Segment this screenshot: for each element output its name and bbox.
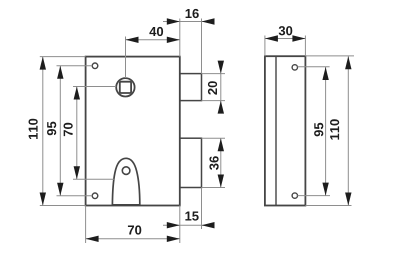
extension line top hole left: [57, 65, 93, 67]
top fixing hole: [92, 63, 98, 69]
dimension 110 right line: [347, 56, 349, 205]
extension line bolt bottom right: [202, 100, 226, 102]
dimension 110 left line: [42, 57, 44, 206]
extension line spindle up: [125, 37, 127, 79]
dimension 40 left arrow: [126, 37, 139, 43]
dimension 30 left arrow: [265, 35, 278, 41]
bolt head box: [180, 74, 202, 101]
extension line below plate right edge: [179, 206, 181, 244]
spindle square: [120, 82, 131, 93]
dimension 95 right line: [325, 67, 327, 196]
dimension 70 left top arrow: [74, 87, 80, 100]
dimension 70 bottom line: [86, 238, 180, 240]
side view body: [265, 56, 306, 205]
extension line side bottom hole right: [298, 195, 331, 197]
plate outline (face view): [86, 57, 180, 206]
dimension 95 right top arrow: [322, 67, 328, 80]
extension line side bottom right: [305, 205, 351, 207]
side view plate edge line: [275, 56, 277, 205]
dimension 15 line: [163, 224, 215, 226]
extension line spindle left: [73, 86, 116, 88]
dimension 95 left line: [59, 66, 61, 196]
dimension 20 text: [208, 81, 217, 94]
extension line side view right up: [304, 36, 306, 57]
side view top hole: [292, 65, 297, 70]
extension line below left edge: [85, 206, 87, 244]
dimension 95 right bottom arrow: [322, 183, 328, 196]
dimension 36 text: [209, 156, 218, 170]
extension line below case right edge: [201, 188, 203, 230]
dimension 20 top arrow: [218, 61, 224, 74]
extension line side top right: [305, 55, 354, 57]
dimension 15 right arrow: [202, 222, 215, 228]
dimension 36 bottom arrow: [218, 175, 224, 188]
dimension 95 left text: [47, 122, 56, 136]
extension line bolt top right: [202, 73, 226, 75]
dimension 110 left text: [29, 119, 38, 139]
dimension 70 left text: [64, 123, 73, 136]
escutcheon hole: [122, 167, 130, 175]
dimension 70 bottom right arrow: [167, 236, 180, 242]
dimension 95 left bottom arrow: [57, 183, 63, 196]
dimension 36 line: [220, 138, 222, 187]
dimension 20 bottom arrow: [218, 101, 224, 114]
extension line case lower bottom right: [202, 187, 226, 189]
dimension 110 right top arrow: [345, 56, 351, 69]
dimension 16 text: [186, 9, 199, 18]
dimension 40 text: [149, 27, 163, 36]
dimension 70 left bottom arrow: [74, 166, 80, 179]
dimension 70 left line: [76, 87, 78, 180]
extension line escutcheon left: [73, 178, 114, 180]
extension line plate right edge up: [179, 19, 181, 57]
dimension 40 right arrow: [167, 37, 180, 43]
dimension 15 left arrow: [167, 222, 180, 228]
extension line case lower top right: [202, 137, 226, 139]
dimension 110 left top arrow: [40, 57, 46, 70]
extension line case right edge up: [201, 19, 203, 74]
dimension 110 left bottom arrow: [40, 193, 46, 206]
extension line side top hole right: [298, 66, 330, 68]
dimension 30 right arrow: [292, 35, 305, 41]
extension line bottom edge left: [40, 205, 86, 207]
dimension 110 right text: [330, 119, 339, 139]
dimension 70 bottom text: [128, 225, 141, 234]
extension line side view left up: [264, 36, 266, 57]
spindle circle: [116, 78, 134, 96]
extension line top edge left: [40, 56, 86, 58]
dimension 30 line: [265, 38, 306, 40]
dimension 95 left top arrow: [57, 66, 63, 79]
dimension 70 bottom left arrow: [86, 236, 99, 242]
keyhole escutcheon: [112, 158, 139, 205]
dimension 20 line: [220, 62, 222, 112]
dimension 16 right arrow: [202, 18, 215, 24]
bottom fixing hole: [92, 193, 98, 199]
dimension 36 top arrow: [218, 138, 224, 151]
dimension 40 line: [126, 39, 180, 41]
dimension 110 right bottom arrow: [345, 193, 351, 206]
dimension 30 text: [279, 26, 293, 35]
lower case box: [180, 138, 202, 187]
extension line bottom hole left: [57, 195, 93, 197]
dimension 16 line: [163, 21, 215, 23]
dimension 15 text: [185, 212, 198, 221]
side view bottom hole: [292, 193, 297, 198]
dimension 16 left arrow: [167, 18, 180, 24]
dimension 95 right text: [314, 123, 323, 137]
